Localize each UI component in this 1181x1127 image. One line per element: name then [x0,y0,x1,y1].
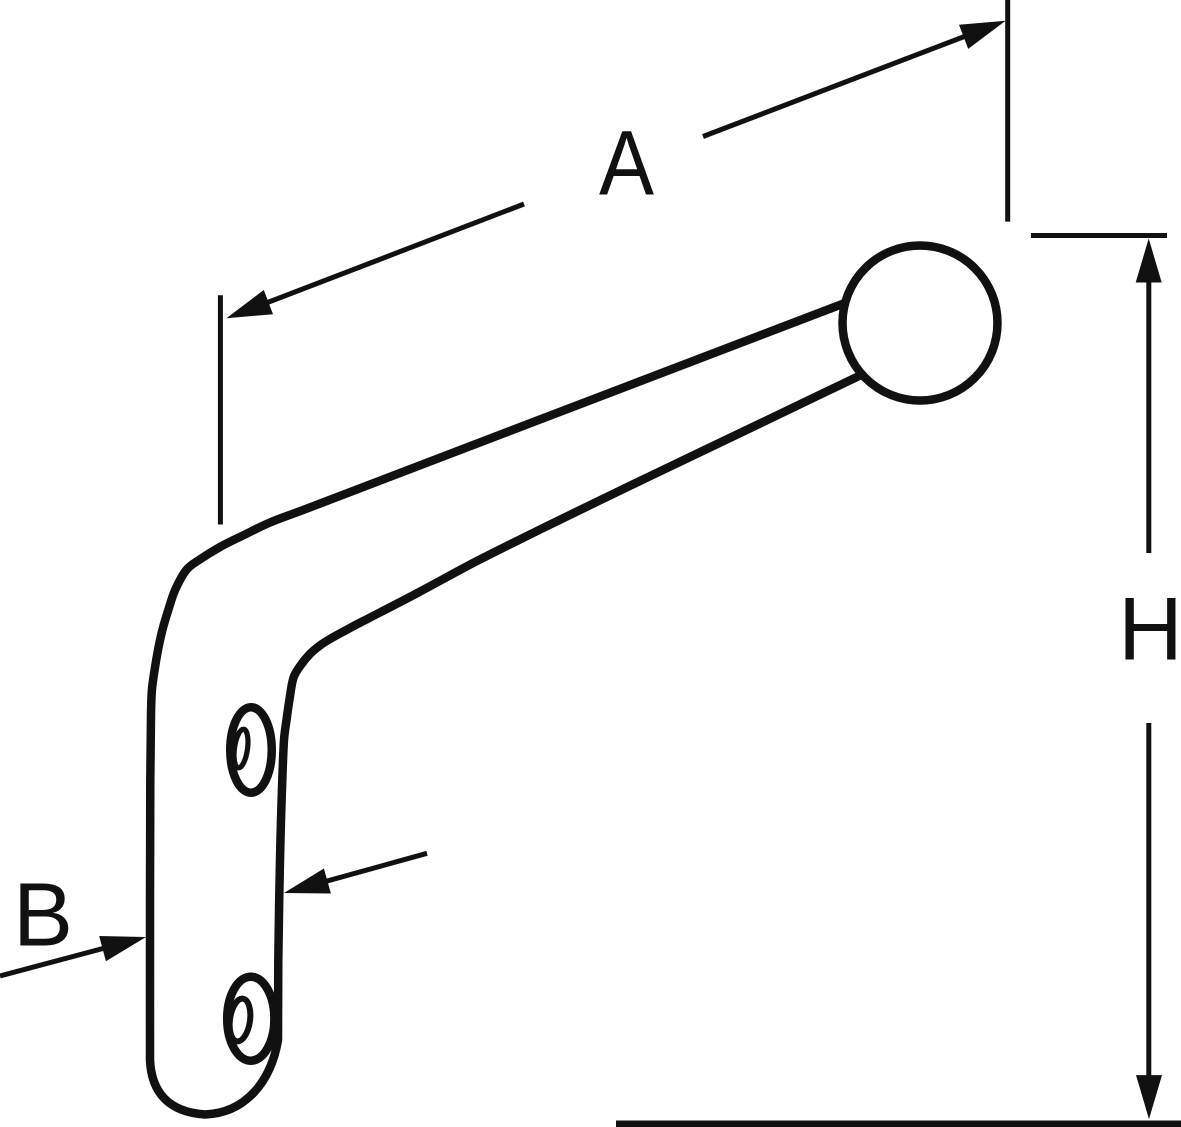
dimension line A left segment [238,204,524,314]
baseline (wall / floor datum) [616,1121,1181,1127]
dimension line H lower segment [1146,723,1151,1110]
hole upper inner [232,728,250,768]
extension line left (A datum over bend) [218,295,223,524]
hole lower inner [227,997,253,1042]
dimension line H upper segment [1146,250,1151,553]
arrowhead A right [959,21,1006,49]
arrowhead A left [226,290,273,318]
extension line H top (over ball) [1031,233,1167,238]
svg-text:H: H [1118,579,1181,679]
arrow B right (to plate back) [294,853,427,890]
arrow B left (to plate face) [0,940,136,976]
extension line right (A datum over ball) [1005,0,1010,222]
arrowhead H down [1136,1075,1162,1119]
dimension line A right segment [703,24,996,136]
hole lower outer (countersink) [227,977,274,1061]
svg-text:B: B [13,866,73,966]
svg-text:A: A [599,113,654,215]
hole upper outer (countersink) [230,707,272,793]
ball knob end [843,246,998,401]
bracket body outline (wall plate, bend and tapered arm) [150,303,862,1115]
arrowhead H up [1136,239,1162,283]
